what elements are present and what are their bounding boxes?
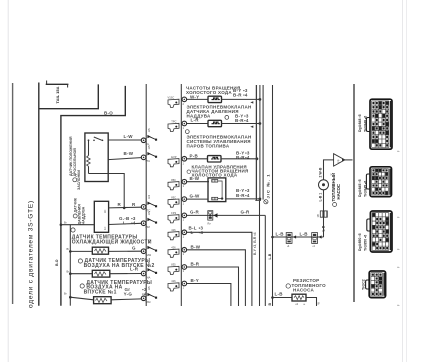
- svg-text:ЗАСЛОНКИ: ЗАСЛОНКИ: [77, 170, 81, 190]
- svg-text:▪4: ▪4: [245, 193, 250, 198]
- node 85C: chevron and ring: [168, 195, 187, 207]
- svg-text:L-B: L-B: [275, 291, 284, 296]
- svg-text:B-O: B-O: [55, 259, 59, 266]
- node THA ring: [141, 261, 157, 279]
- ECU bus line 1: [255, 85, 257, 200]
- coolant temp sensor: [67, 228, 152, 254]
- svg-text:115: 115: [148, 261, 151, 265]
- panel separator: [353, 84, 355, 302]
- svg-text:(:: (:: [396, 150, 400, 152]
- svg-text:Br: Br: [67, 269, 70, 273]
- svg-text:Y-G: Y-G: [124, 292, 133, 297]
- wire: fuse output step: [39, 84, 99, 108]
- ECU bus line 2: [259, 85, 261, 201]
- svg-text:115: 115: [148, 145, 151, 149]
- svg-text:TPC: TPC: [171, 120, 176, 124]
- connector B body: [366, 167, 391, 197]
- boost pressure sensor box: [94, 201, 108, 232]
- svg-text:L: L: [123, 220, 126, 225]
- svg-text:416: 416: [171, 228, 176, 232]
- svg-text:850: 850: [171, 178, 176, 182]
- svg-text:1C: 1C: [103, 227, 107, 230]
- wire B-W throttle: [108, 151, 141, 159]
- svg-text:одели с двигателем 3S-GTE): одели с двигателем 3S-GTE): [28, 200, 35, 308]
- connector C label: [358, 233, 368, 251]
- svg-text:2 W-B: 2 W-B: [319, 167, 323, 177]
- node EVP: chevron and ring: [168, 155, 187, 167]
- svg-text:Tr⊙850 ▪6: Tr⊙850 ▪6: [364, 235, 368, 251]
- ground rail Br: [69, 225, 71, 306]
- node THW ring: [141, 239, 157, 257]
- left margin rule: [12, 83, 14, 304]
- svg-text:L-B: L-B: [300, 231, 309, 236]
- svg-text:(:: (:: [396, 216, 400, 218]
- svg-text:Dg⊙848 ▪5: Dg⊙848 ▪5: [358, 114, 362, 132]
- label: датчик давления наддува (rotated): [73, 197, 85, 224]
- node FP3: chevron and ring: [168, 211, 187, 223]
- svg-text:Br: Br: [67, 247, 70, 251]
- svg-text:(:: (:: [396, 248, 400, 250]
- wire G-B / L boost: [109, 216, 142, 225]
- svg-text:L-W: L-W: [124, 134, 134, 139]
- node 416b: chevron and ring: [168, 279, 187, 291]
- node 835: chevron and ring: [168, 263, 187, 275]
- node PIM ring: [141, 211, 157, 229]
- svg-text:НАСОСА: НАСОСА: [293, 288, 314, 293]
- svg-text:B-R: B-R: [233, 93, 242, 98]
- wire G-R with inline connector: [187, 210, 266, 226]
- wire G-R drop: [264, 215, 266, 306]
- node 850: chevron and ring: [168, 178, 187, 190]
- svg-text:115: 115: [148, 239, 151, 243]
- svg-text:TAIL 15A: TAIL 15A: [55, 86, 60, 103]
- svg-text:B-R: B-R: [236, 193, 245, 198]
- page edge rules (decorative): [7, 0, 9, 362]
- connector D label: [362, 279, 366, 290]
- svg-text:▪▪: ▪▪: [304, 303, 306, 306]
- svg-text:ПАРОВ ТОПЛИВА: ПАРОВ ТОПЛИВА: [187, 144, 230, 149]
- svg-text:B-R: B-R: [235, 118, 244, 123]
- svg-text:НАСОС: НАСОС: [336, 184, 341, 200]
- wire B-W 426: [187, 244, 246, 306]
- svg-text:L-B: L-B: [268, 253, 272, 259]
- fuse TAIL 15A: [46, 81, 69, 104]
- svg-text:416: 416: [171, 279, 176, 283]
- label EVAP solenoid: [185, 130, 251, 160]
- svg-text:▪4: ▪4: [244, 118, 249, 123]
- node TPC: chevron and ring: [168, 120, 187, 132]
- node THA2 ring: [141, 286, 157, 304]
- check connector FP triangle: [334, 154, 353, 166]
- fuel pump feed wire L-B: [273, 225, 326, 248]
- connector A body: [366, 99, 392, 149]
- wire L-R with coil: [187, 117, 262, 128]
- node VTC ring: [141, 194, 157, 212]
- svg-text:B-Y: B-Y: [191, 278, 200, 283]
- svg-text:R: R: [132, 202, 136, 207]
- svg-text:G-R: G-R: [241, 210, 251, 215]
- svg-text:1B: 1B: [316, 214, 320, 217]
- fuel pump branch: [319, 160, 334, 237]
- svg-text:J/C №. 1: J/C №. 1: [265, 173, 270, 198]
- svg-text:ВПУСКЕ №1: ВПУСКЕ №1: [84, 290, 117, 296]
- svg-text:G-W: G-W: [190, 194, 201, 199]
- svg-text:R: R: [118, 202, 122, 207]
- connector D body: [366, 271, 386, 298]
- svg-text:Br: Br: [64, 292, 67, 296]
- svg-text:L-B: L-B: [276, 231, 285, 236]
- label boost solenoid: [187, 105, 252, 124]
- svg-text:W-Y: W-Y: [190, 95, 199, 100]
- svg-text:(:: (:: [396, 304, 400, 306]
- svg-text:V1SC: V1SC: [168, 96, 175, 100]
- svg-text:▪4: ▪4: [243, 93, 248, 98]
- wire Br boost ground: [60, 221, 95, 226]
- wire B-R 835: [187, 262, 239, 307]
- wire throttle to R node: [108, 174, 124, 208]
- node 426: chevron and ring: [168, 246, 187, 258]
- intake air temp sensor 1: [64, 280, 152, 304]
- svg-text:L-B 1: L-B 1: [319, 193, 323, 202]
- connector C body: [367, 211, 392, 252]
- svg-text:ВОЗДУХА НА ВПУСКЕ №2: ВОЗДУХА НА ВПУСКЕ №2: [84, 263, 155, 269]
- svg-text:Dg⊙850 ▪5: Dg⊙850 ▪5: [358, 233, 362, 251]
- main right feed line: [268, 85, 274, 306]
- node VTA ring: [141, 145, 157, 163]
- svg-text:115: 115: [148, 211, 151, 215]
- connector B label: [358, 179, 368, 197]
- wire B-O: [61, 86, 125, 306]
- svg-text:115: 115: [148, 194, 151, 198]
- svg-text:НАДДУВА: НАДДУВА: [81, 206, 85, 224]
- fuel pump resistor: [273, 278, 327, 306]
- ISC valve box: [208, 178, 226, 202]
- harness separator line right: [180, 84, 182, 306]
- svg-text:426: 426: [171, 246, 176, 250]
- svg-text:835: 835: [171, 263, 176, 267]
- junction connector J/C: [264, 173, 271, 203]
- fuel pump motor: [319, 173, 341, 207]
- svg-text:B-W: B-W: [190, 176, 200, 181]
- svg-text:G-R: G-R: [190, 210, 200, 215]
- svg-text:FP3: FP3: [171, 211, 176, 215]
- wire W-Y with coil: [187, 95, 262, 104]
- wire G-W ISC: [187, 194, 262, 201]
- harness separator line left: [145, 84, 147, 306]
- svg-text:L-R: L-R: [130, 266, 139, 271]
- intake air temp sensor 2: [67, 258, 155, 277]
- node 416a: chevron and ring: [168, 228, 187, 240]
- svg-text:L-R: L-R: [191, 117, 200, 122]
- svg-text:B-R: B-R: [191, 262, 200, 267]
- node IDL ring: [141, 128, 157, 146]
- wire: main feed rail: [38, 83, 40, 306]
- svg-text:85C: 85C: [171, 195, 176, 199]
- svg-text:B-W: B-W: [191, 244, 201, 249]
- wire B-L: [187, 226, 252, 307]
- svg-text:(:: (:: [396, 266, 400, 268]
- svg-text:B-Y ▪3, B-R ▪4: B-Y ▪3, B-R ▪4: [253, 232, 257, 255]
- svg-text:P-B: P-B: [190, 153, 199, 158]
- fuel pump inline connector: [316, 211, 327, 218]
- node VISC: chevron and ring: [168, 96, 187, 108]
- svg-text:G: G: [132, 246, 136, 251]
- wire P-B with coil: [187, 153, 259, 162]
- svg-text:B-W: B-W: [124, 151, 134, 156]
- wire ISC return drop: [259, 201, 261, 306]
- svg-text:▪4: ▪4: [131, 220, 136, 225]
- svg-text:115: 115: [148, 128, 151, 132]
- throttle position sensor box: [85, 133, 108, 182]
- svg-text:Tr⊙C2: Tr⊙C2: [362, 279, 366, 290]
- wire R boost: [109, 202, 142, 209]
- svg-text:FP: FP: [337, 159, 341, 163]
- svg-text:115: 115: [148, 286, 151, 290]
- small view marks right of connectors: [396, 150, 400, 306]
- label: датчик положения дроссельной заслонки (rotated): [69, 136, 81, 190]
- wire B-W ISC: [187, 176, 209, 182]
- label ISC control valve: [187, 164, 250, 198]
- wire L-W: [108, 134, 141, 140]
- ECU bus line 3: [262, 85, 264, 200]
- connector A label: [358, 114, 368, 132]
- svg-text:B-O: B-O: [104, 111, 113, 116]
- svg-text:3C: 3C: [103, 210, 107, 213]
- wire B-Y 416b: [187, 278, 231, 306]
- svg-text:ОХЛАЖДАЮЩЕЙ ЖИДКОСТИ: ОХЛАЖДАЮЩЕЙ ЖИДКОСТИ: [72, 237, 152, 245]
- svg-text:Br: Br: [64, 221, 67, 225]
- svg-text:Dg⊙845 ▪5: Dg⊙845 ▪5: [358, 179, 362, 197]
- label ISC valve top (cut): [186, 86, 248, 98]
